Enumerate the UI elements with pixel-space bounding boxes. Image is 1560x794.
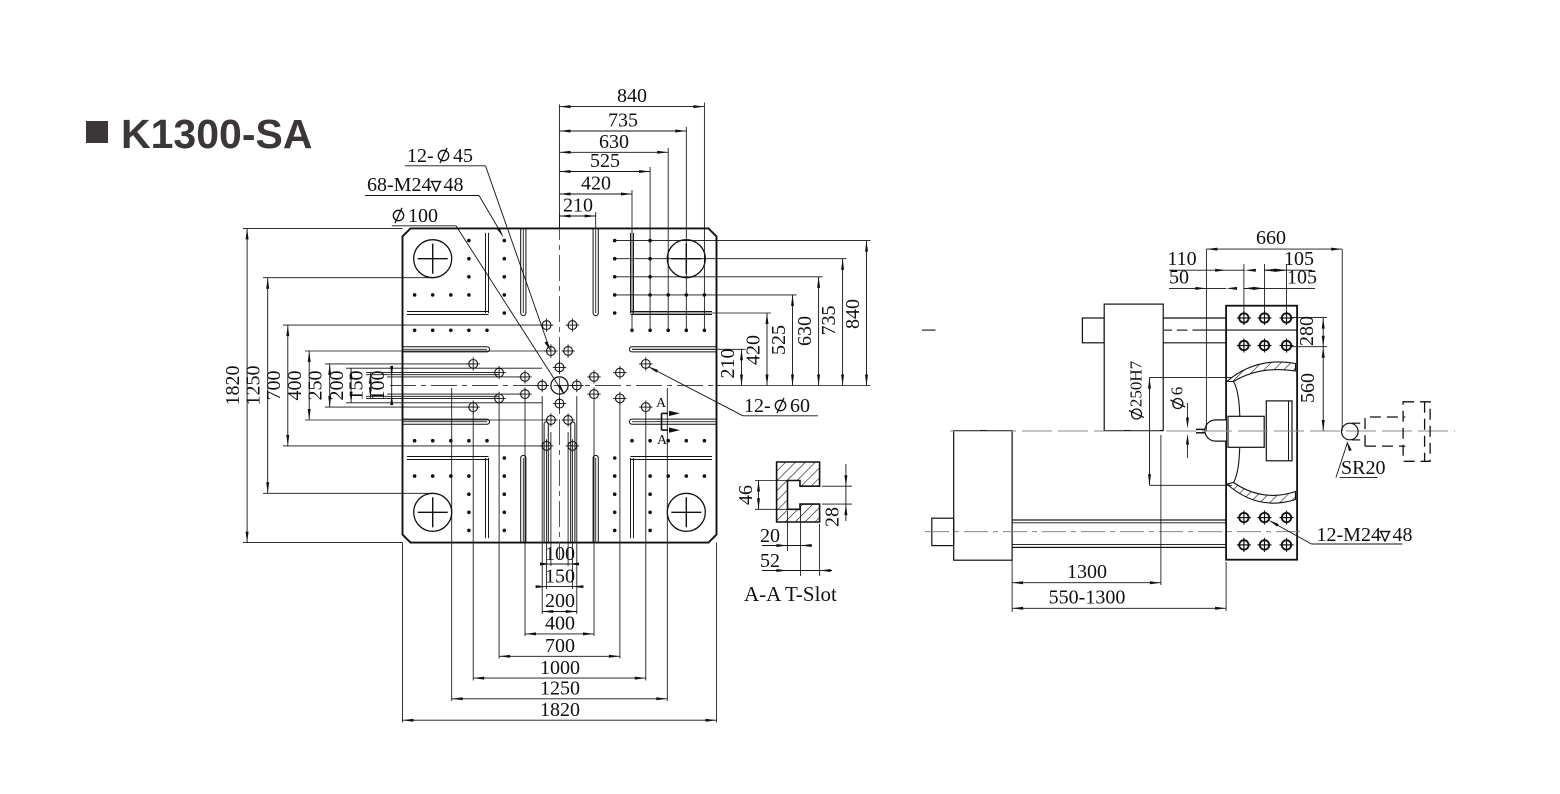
mold half dashed large — [1403, 402, 1430, 462]
right dimension chain extension lines — [632, 348, 746, 350]
svg-text:735: 735 — [608, 110, 638, 132]
T-slot vertical left of center, bottom edge — [520, 458, 522, 543]
left dimension chain extension lines — [243, 227, 403, 229]
svg-text:105: 105 — [1287, 267, 1317, 289]
side view lower cylinder — [1012, 520, 1226, 547]
side view nozzle tip — [1205, 420, 1226, 441]
front view vertical centerline — [559, 214, 561, 559]
barrel centerline through platen — [922, 329, 936, 331]
tie-bar hole top-left — [414, 240, 452, 278]
platen side bolt holes 12-M24 — [1239, 313, 1248, 322]
dimension 210 top — [560, 215, 596, 217]
T-slot horizontal lower, left edge — [403, 418, 488, 420]
dimension 630 right — [818, 277, 820, 386]
dimension 735 top — [560, 130, 687, 132]
svg-text:A: A — [657, 433, 668, 448]
dimension 200 bottom — [542, 611, 577, 613]
svg-text:48: 48 — [1393, 524, 1413, 546]
svg-text:12-: 12- — [407, 145, 434, 167]
svg-text:1820: 1820 — [222, 366, 244, 406]
dimension 420 top — [560, 193, 633, 195]
svg-text:400: 400 — [284, 371, 306, 401]
side dim 105 upper — [1265, 269, 1313, 271]
pad bracket top-left — [485, 233, 487, 313]
side hole column extension lines — [1243, 264, 1245, 318]
svg-text:525: 525 — [768, 325, 790, 355]
side view platen body — [1226, 306, 1297, 560]
svg-text:700: 700 — [545, 635, 575, 657]
side view base stub — [932, 518, 954, 545]
T-slot vertical inner right, bottom edge — [570, 424, 572, 543]
side view lower cylinder centerline — [925, 531, 1302, 533]
dimension 840 right — [866, 241, 868, 386]
dimension 1820 bottom — [403, 719, 717, 721]
pad bracket bottom-right — [630, 458, 632, 538]
svg-text:250H7: 250H7 — [1127, 360, 1146, 407]
dimension 100 left — [391, 377, 393, 394]
dimension 630 top — [560, 151, 669, 153]
side view barrel — [1163, 317, 1226, 319]
side dim 560 — [1322, 347, 1324, 431]
dimension 100 bottom — [551, 563, 568, 565]
pad bracket top-right — [630, 233, 632, 313]
dimension 150 bottom — [547, 586, 573, 588]
tie-bar hole bottom-left — [414, 493, 452, 531]
side view recess cavity profile — [1234, 382, 1241, 483]
svg-text:560: 560 — [1297, 373, 1319, 403]
T-slot vertical right of center, top edge — [592, 228, 594, 313]
side view recess upper hatched band — [1227, 362, 1296, 382]
svg-text:12-: 12- — [744, 395, 771, 417]
dimension 700 bottom — [499, 655, 620, 657]
platen front view outline — [403, 228, 717, 542]
bottom dimension chain extension lines — [550, 432, 552, 566]
side dim dia250H7 — [1150, 377, 1233, 379]
svg-text:1300: 1300 — [1067, 561, 1107, 583]
svg-text:280: 280 — [1296, 316, 1318, 346]
dimension 250 left — [329, 364, 331, 407]
svg-text:150: 150 — [346, 371, 368, 401]
T-slot vertical inner left, bottom edge — [543, 424, 545, 543]
tie-bar hole bottom-right — [667, 493, 705, 531]
dimension 1820 left — [246, 228, 248, 542]
side view sprue bushing — [1228, 416, 1264, 447]
svg-text:45: 45 — [453, 145, 473, 167]
svg-text:840: 840 — [617, 85, 647, 107]
svg-text:200: 200 — [545, 590, 575, 612]
svg-text:52: 52 — [760, 550, 780, 572]
top dimension chain extension lines — [559, 105, 561, 229]
T-slot detail dim 52 — [819, 524, 821, 576]
dimension 420 right — [766, 313, 768, 386]
svg-text:210: 210 — [717, 349, 739, 379]
section mark A-A — [661, 413, 663, 430]
side view carriage block — [1104, 304, 1163, 431]
svg-text:SR20: SR20 — [1341, 457, 1385, 479]
side dim 1300 — [1011, 550, 1013, 612]
svg-text:6: 6 — [1168, 387, 1187, 396]
svg-text:525: 525 — [590, 150, 620, 172]
svg-text:550-1300: 550-1300 — [1049, 587, 1126, 609]
T-slot horizontal lower, lower right edge — [632, 418, 717, 420]
title block K1300-SA — [86, 121, 108, 143]
T-slot detail dim 28 — [822, 485, 852, 487]
side dim 110 — [1169, 269, 1245, 271]
side dim dia6 — [1187, 403, 1189, 424]
svg-text:20: 20 — [760, 525, 780, 547]
T-slot horizontal upper, right edge — [632, 346, 717, 348]
svg-text:60: 60 — [790, 395, 810, 417]
svg-text:12-M24: 12-M24 — [1317, 524, 1381, 546]
dimension 400 bottom — [525, 633, 594, 635]
dimension 400 left — [308, 351, 310, 420]
svg-text:A-A T-Slot: A-A T-Slot — [744, 582, 837, 606]
dimension 525 top — [560, 171, 651, 173]
dimension 840 top — [560, 106, 705, 108]
side dim 280 — [1290, 317, 1327, 319]
svg-text:50: 50 — [1169, 267, 1189, 289]
side view recess lower hatched band — [1227, 483, 1296, 504]
dimension 200 left — [350, 368, 352, 403]
dimension 1250 bottom — [452, 698, 668, 700]
side view injection unit base block — [954, 431, 1012, 561]
svg-text:100: 100 — [408, 205, 438, 227]
side view main centerline — [950, 430, 1455, 432]
svg-text:48: 48 — [444, 174, 464, 196]
svg-text:420: 420 — [743, 335, 765, 365]
svg-text:400: 400 — [545, 613, 575, 635]
svg-text:660: 660 — [1256, 227, 1286, 249]
ejector ball SR20 — [1342, 423, 1359, 440]
T-slot horizontal upper, left edge — [403, 346, 488, 348]
svg-text:K1300-SA: K1300-SA — [121, 111, 312, 157]
mold half dashed small — [1365, 417, 1405, 446]
label dia100 with leader — [393, 208, 403, 223]
drilled hole pattern 12-dia45 dots — [503, 311, 507, 315]
svg-text:250: 250 — [305, 371, 327, 401]
svg-text:700: 700 — [263, 371, 285, 401]
dimension 735 right — [842, 259, 844, 386]
dimension 1000 bottom — [473, 677, 646, 679]
svg-text:46: 46 — [735, 485, 757, 505]
side view carriage stub — [1082, 318, 1104, 343]
svg-text:210: 210 — [563, 195, 593, 217]
dimension 1250 left — [267, 278, 269, 494]
svg-text:100: 100 — [367, 371, 389, 401]
side dim 50 — [1169, 287, 1226, 289]
side view locating ring — [1266, 401, 1292, 461]
side dim 105 lower — [1244, 287, 1315, 289]
svg-text:68-M24: 68-M24 — [367, 174, 431, 196]
svg-text:28: 28 — [822, 507, 844, 527]
dimension 210 right — [741, 349, 743, 385]
T-slot vertical right of center, bottom edge — [592, 458, 594, 543]
svg-text:1250: 1250 — [243, 366, 265, 406]
pad bracket bottom-left — [485, 458, 487, 538]
side dim 550-1300 — [1225, 562, 1227, 611]
T-slot detail dim 20 — [787, 511, 789, 551]
svg-text:420: 420 — [581, 173, 611, 195]
T-slot detail section (hatched) — [777, 462, 820, 522]
tie-bar hole top-right — [667, 240, 705, 278]
svg-text:150: 150 — [545, 566, 575, 588]
svg-text:1820: 1820 — [540, 699, 580, 721]
T-slot detail dim 46 — [755, 480, 788, 482]
dimension 700 left — [287, 325, 289, 446]
svg-text:840: 840 — [842, 299, 864, 329]
dimension 525 right — [792, 295, 794, 386]
center locating hole dia100 — [551, 377, 568, 394]
svg-text:630: 630 — [794, 316, 816, 346]
svg-text:735: 735 — [818, 306, 840, 336]
front view horizontal centerline — [390, 385, 720, 387]
svg-text:1250: 1250 — [540, 678, 580, 700]
threaded hole pattern 68-M24 symbols — [555, 363, 564, 372]
T-slot vertical left of center, top edge — [520, 228, 522, 313]
svg-text:100: 100 — [545, 543, 575, 565]
svg-text:A: A — [656, 396, 667, 411]
side dim 660 — [1205, 249, 1207, 430]
dimension 150 left — [369, 373, 371, 399]
svg-text:1000: 1000 — [540, 657, 580, 679]
